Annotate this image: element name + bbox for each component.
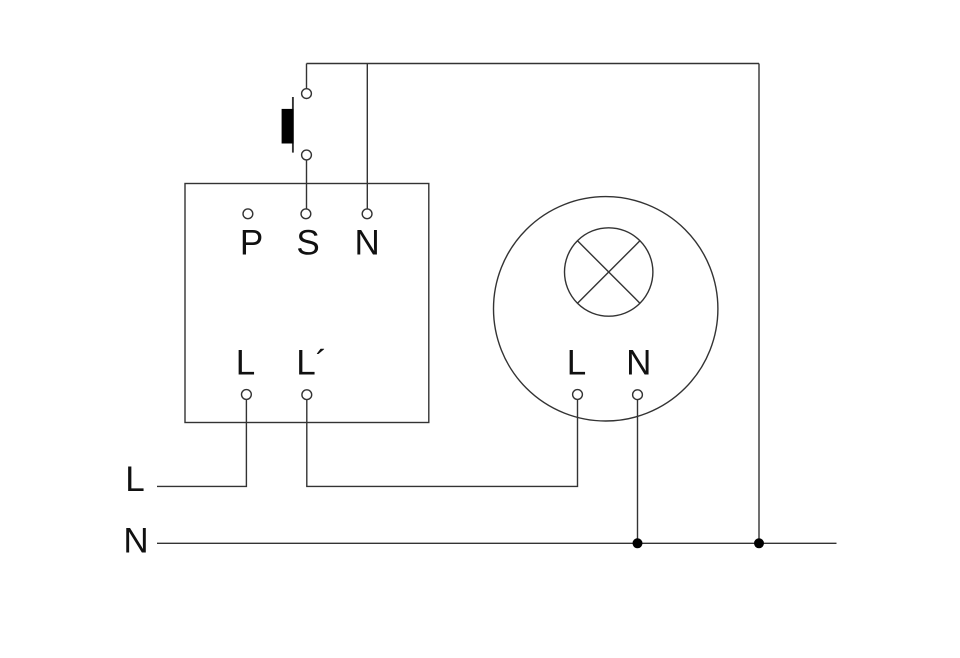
- terminal L': [302, 390, 312, 400]
- wire lamp N to N bus: [637, 400, 639, 544]
- junction lamp N / N bus: [633, 538, 643, 548]
- lamp terminal N: [633, 390, 643, 400]
- wire L' to lamp L: [307, 400, 578, 487]
- terminal N: [362, 209, 372, 219]
- junction right drop / N bus: [754, 538, 764, 548]
- wire N drop to box: [366, 64, 368, 209]
- wire switch to S terminal: [306, 160, 308, 209]
- svg-text:S: S: [296, 224, 319, 263]
- svg-text:P: P: [240, 224, 263, 263]
- svg-text:L´: L´: [296, 344, 327, 383]
- terminal L: [242, 390, 252, 400]
- wire L terminal to mains L: [157, 399, 246, 486]
- wire N mains bus: [157, 542, 837, 544]
- lamp symbol: [565, 228, 653, 316]
- wire switch drop: [306, 64, 308, 89]
- svg-text:L: L: [125, 460, 144, 499]
- svg-text:L: L: [236, 344, 255, 383]
- motion detector box: [185, 184, 429, 423]
- svg-text:L: L: [567, 344, 586, 383]
- lamp terminal L: [573, 390, 583, 400]
- terminal P: [243, 209, 253, 219]
- wire right vertical drop: [758, 64, 760, 544]
- svg-text:N: N: [355, 224, 380, 263]
- push button S1: [282, 89, 312, 160]
- svg-text:N: N: [626, 344, 651, 383]
- terminal S: [301, 209, 311, 219]
- wire top horizontal bus: [307, 63, 760, 65]
- svg-text:N: N: [123, 522, 148, 561]
- lamp fixture circle: [494, 197, 718, 421]
